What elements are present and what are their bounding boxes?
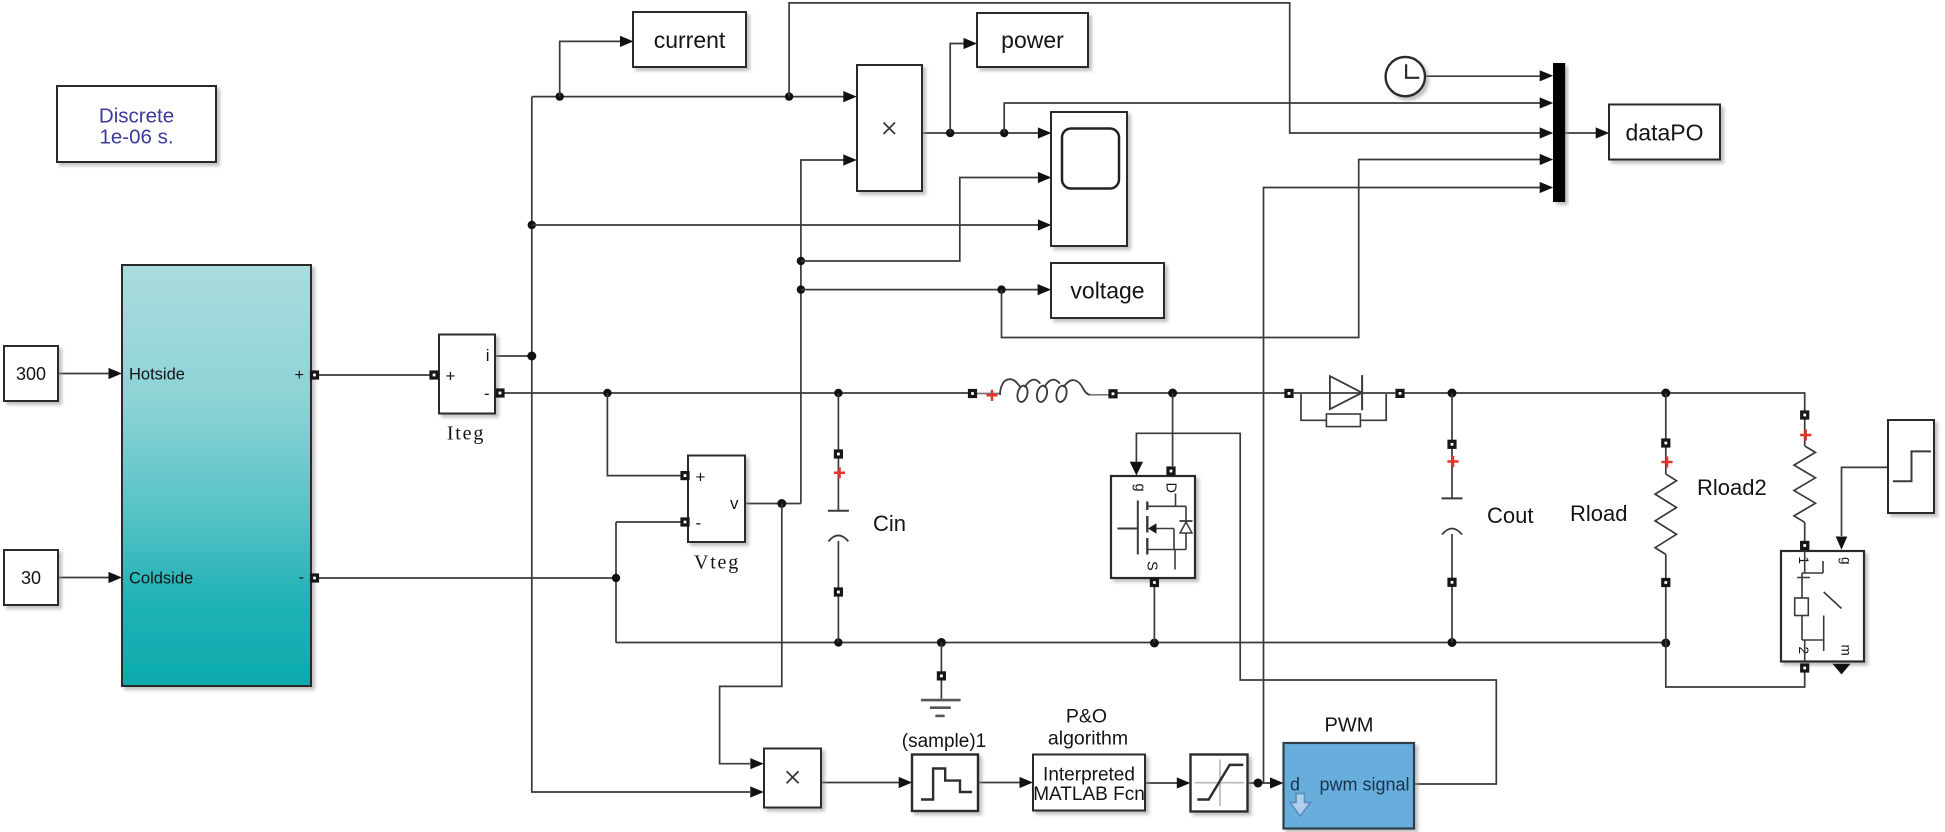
bottom product multiplier: [764, 749, 821, 808]
wire: step to breaker gate input: [1836, 467, 1888, 549]
wire: voltage net vertical x800.9 up to product input 2: [797, 154, 857, 503]
capacitor Cin: [828, 449, 849, 642]
svg-text:d: d: [1290, 775, 1300, 795]
wire: Vteg v output to node: [746, 499, 801, 508]
wire: Vteg minus horizontal: [616, 521, 681, 523]
svg-text:power: power: [1001, 27, 1064, 53]
scope block: [1051, 112, 1127, 246]
svg-text:dataPO: dataPO: [1626, 120, 1704, 146]
svg-text:Vteg: Vteg: [694, 552, 740, 574]
svg-text:Rload2: Rload2: [1697, 475, 1767, 500]
goto box voltage: [1051, 263, 1164, 318]
wire: Cin branch upper lead: [837, 393, 839, 511]
svg-text:Iteg: Iteg: [447, 423, 485, 445]
Interpreted MATLAB Fcn block: [1033, 755, 1145, 811]
wire: MOSFET drain lead: [1172, 393, 1174, 466]
wire: clock to mux input 1: [1425, 70, 1553, 81]
MOSFET Q1: [1111, 466, 1195, 587]
svg-text:Hotside: Hotside: [129, 366, 185, 384]
wire: main top rail (inductor to diode): [1117, 389, 1289, 398]
wire: product output (power net) to scope input 1: [922, 127, 1051, 138]
svg-text:MATLAB Fcn: MATLAB Fcn: [1033, 784, 1145, 805]
svg-text:Cin: Cin: [873, 511, 906, 536]
svg-text:-: -: [299, 569, 304, 586]
annotation: Discrete 1e-06 s.: [57, 86, 216, 162]
wire: zero-order hold to Interpreted MATLAB Fcn: [978, 777, 1033, 788]
svg-text:i: i: [486, 346, 490, 365]
svg-text:P&O: P&O: [1066, 706, 1107, 728]
wire: MOSFET source lead: [1153, 584, 1155, 643]
svg-text:current: current: [654, 27, 726, 53]
svg-text:g: g: [1132, 484, 1148, 492]
svg-text:1e-06 s.: 1e-06 s.: [99, 126, 173, 149]
label Vteg: [694, 552, 740, 574]
goto box current: [633, 12, 746, 67]
saturation block: [1191, 755, 1248, 812]
wire: mux output to dataPO: [1565, 127, 1609, 138]
svg-text:Cout: Cout: [1487, 503, 1533, 528]
svg-text:2: 2: [1796, 647, 1811, 655]
wire: branch to Vteg plus: [607, 393, 681, 476]
zero-order hold (sample)1: [912, 755, 978, 812]
constant block 30: [4, 550, 58, 605]
outport box dataPO: [1609, 105, 1720, 160]
svg-text:Rload: Rload: [1570, 501, 1627, 526]
resistor Rload2: [1794, 409, 1815, 550]
wire: constant 300 to Hotside input: [58, 368, 122, 379]
svg-text:+: +: [696, 468, 706, 487]
node label Cin: [873, 511, 906, 536]
svg-text:PWM: PWM: [1325, 715, 1374, 737]
PWM subsystem block: [1284, 743, 1415, 829]
wire: bottom rail (node B): [616, 638, 1671, 648]
TEG subsystem block (Hotside/Coldside): [122, 265, 319, 686]
svg-text:v: v: [730, 494, 739, 513]
wire: current net top horizontal to product input 1: [532, 91, 857, 102]
mux: [1553, 63, 1565, 202]
svg-text:30: 30: [21, 568, 41, 588]
label P&O algorithm: [1048, 706, 1128, 750]
resistor Rload: [1655, 393, 1676, 643]
step block: [1888, 420, 1934, 513]
clock: [1386, 57, 1425, 96]
wire: current branch to scope input 3: [532, 219, 1052, 230]
ground: [921, 643, 961, 716]
label (sample)1: [902, 731, 986, 752]
svg-text:-: -: [696, 514, 702, 533]
svg-text:D: D: [1163, 483, 1179, 493]
wire: bottom rail return to breaker port 2: [1666, 643, 1805, 688]
wire: product to zero-order hold: [821, 777, 913, 788]
svg-text:g: g: [1839, 557, 1854, 565]
svg-text:m: m: [1839, 645, 1854, 656]
voltage sensor Vteg: [680, 456, 745, 543]
svg-text:Interpreted: Interpreted: [1043, 765, 1135, 786]
svg-text:algorithm: algorithm: [1048, 728, 1128, 750]
capacitor Cout: [1442, 393, 1463, 643]
current sensor Iteg: [429, 335, 504, 414]
product block (power multiplier): [857, 65, 922, 191]
wire: duty branch up to mux input 5: [1264, 182, 1554, 783]
node label Cout: [1487, 503, 1533, 528]
diode D1 (with parallel resistance): [1284, 375, 1404, 427]
svg-text:Coldside: Coldside: [129, 570, 193, 588]
svg-text:(sample)1: (sample)1: [902, 731, 986, 752]
svg-text:S: S: [1144, 561, 1160, 571]
svg-text:+: +: [446, 367, 456, 386]
wire: Iteg i output to current net: [495, 355, 532, 357]
wire: main top rail (Iteg minus to inductor): [500, 389, 977, 397]
wire: coldside net vertical x616 (Vteg minus down to bottom rail): [612, 522, 620, 643]
node label Rload2: [1697, 475, 1767, 500]
wire: power branch to mux input 2: [1004, 97, 1553, 133]
svg-text:Discrete: Discrete: [99, 105, 174, 128]
node label Rload: [1570, 501, 1627, 526]
wire: PWM output to MOSFET gate: [1130, 433, 1497, 784]
goto box power: [977, 13, 1088, 67]
wire: current net vertical x531.8 with branches: [527, 97, 764, 798]
constant block 300: [4, 346, 58, 401]
breaker block: [1781, 541, 1864, 675]
wire: power branch to goto power box: [950, 38, 977, 133]
svg-text:pwm signal: pwm signal: [1319, 775, 1409, 795]
label PWM: [1325, 715, 1374, 737]
svg-text:1: 1: [1796, 557, 1811, 565]
wire: branch to goto current box: [560, 36, 634, 97]
wire: voltage branch to scope input 2: [801, 172, 1052, 261]
wire: saturation output to PWM d input (duty node): [1248, 777, 1284, 788]
svg-text:voltage: voltage: [1070, 278, 1144, 304]
wire: voltage branch to mux input 4: [1002, 154, 1554, 338]
inductor L: [968, 379, 1118, 403]
svg-text:-: -: [484, 384, 490, 403]
wire: current branch over the top to mux input 3: [789, 3, 1553, 139]
wire: voltage branch down to bottom product input 1: [720, 504, 782, 770]
label Iteg: [447, 423, 485, 445]
wire: voltage branch to goto voltage box: [801, 284, 1051, 295]
wire: TEG minus output to node at x616 (coldside net): [315, 577, 616, 579]
svg-text:300: 300: [16, 364, 46, 384]
wire: constant 30 to Coldside input: [58, 572, 122, 583]
svg-text:+: +: [295, 367, 304, 384]
wire: TEG plus output to Iteg plus: [315, 374, 434, 376]
wire: main top rail (diode to Rload2 corner): [1400, 389, 1805, 412]
wire: Interpreted MATLAB Fcn to saturation: [1145, 777, 1191, 788]
